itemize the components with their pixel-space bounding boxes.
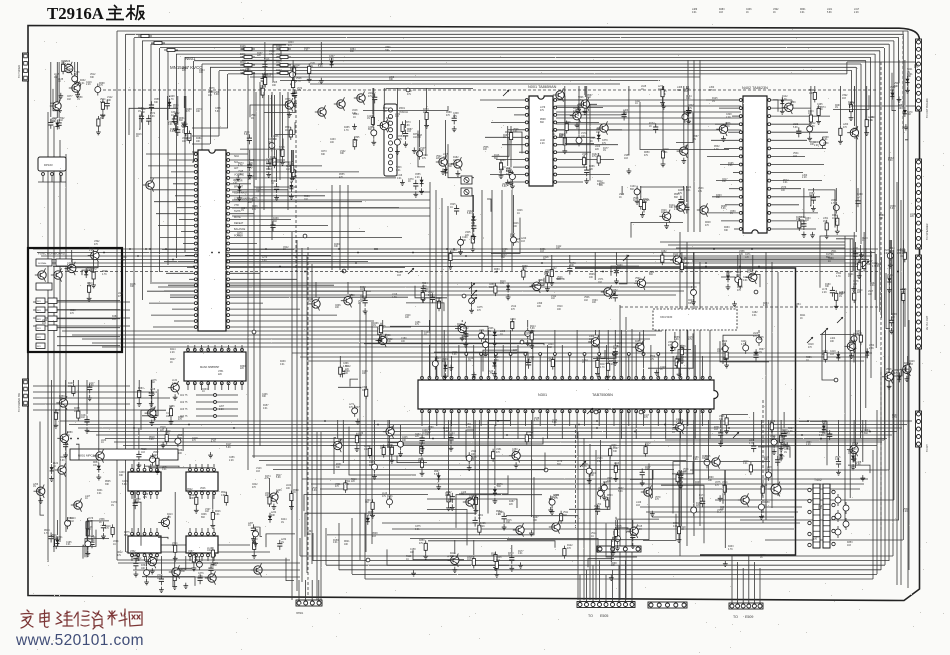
wire [189,278,194,280]
svg-text:D405: D405 [480,523,486,525]
resistor [184,123,187,136]
wire [771,131,828,133]
IC N602 M58655P [184,348,246,384]
svg-text:33K: 33K [389,79,394,81]
svg-text:1K: 1K [795,306,798,308]
ground [379,336,384,342]
ground [888,262,893,268]
wire [905,112,908,140]
svg-text:D683: D683 [138,388,144,390]
capacitor [65,517,71,529]
wire [557,129,622,131]
svg-text:1N: 1N [693,139,696,141]
wire [151,380,153,407]
svg-text:1K: 1K [619,197,622,199]
svg-text:FUNCTION BOARD: FUNCTION BOARD [38,252,66,256]
resistor [353,137,356,150]
wire [373,88,375,126]
wire [57,300,120,302]
capacitor [139,112,144,122]
wire [250,105,287,117]
wire [392,528,794,530]
svg-text:R362: R362 [463,328,469,330]
title glyph 板 [126,5,145,21]
ground [149,401,154,407]
svg-text:L316: L316 [392,294,398,296]
svg-text:D670: D670 [609,361,615,363]
capacitor [511,234,517,246]
wire [252,455,692,457]
svg-text:R251: R251 [397,272,403,274]
resistor [291,162,294,175]
wire [123,445,877,447]
svg-text:L494: L494 [67,69,73,71]
wire [846,62,848,74]
ground [289,194,294,200]
svg-text:10K: 10K [265,495,270,497]
svg-text:0.01: 0.01 [263,408,268,410]
svg-text:L623: L623 [753,333,759,335]
wire [715,123,739,125]
ground [460,335,465,341]
wire [771,164,824,166]
svg-text:V502: V502 [894,83,900,85]
resistor [437,298,440,311]
svg-text:1N: 1N [276,492,279,494]
wire [41,255,872,257]
wire [181,231,194,233]
wire [740,519,899,521]
svg-text:D431: D431 [97,490,103,492]
IC N803 [128,468,161,494]
resistor [62,61,65,74]
svg-text:L654: L654 [42,320,48,322]
svg-text:KEY: KEY [37,346,42,348]
pin header [539,353,542,356]
resistor [365,386,368,399]
resistor [138,35,152,38]
ground [236,175,241,181]
test point [462,294,466,298]
svg-text:10K: 10K [199,72,204,74]
capacitor [613,292,618,302]
transistor [746,271,757,284]
wire [225,492,227,493]
wire [557,144,618,146]
resistor [253,539,256,552]
wire [639,332,641,341]
wire [86,380,88,414]
svg-text:1U: 1U [500,163,503,165]
ground [274,195,279,201]
wire [771,172,803,174]
wire [903,369,909,379]
svg-text:N301: N301 [538,393,547,397]
diode [726,272,730,282]
capacitor [146,115,151,125]
transistor [597,121,608,134]
ground [137,462,142,468]
svg-text:Z601: Z601 [399,106,405,110]
IC N805 [128,532,161,556]
ground [352,124,357,130]
svg-text:L669: L669 [595,146,601,148]
wire [872,450,874,579]
transformer T402 [808,484,835,548]
ground [602,494,607,500]
transistor [716,123,727,136]
wire [310,83,620,85]
ground [627,168,632,174]
svg-text:4.7K: 4.7K [510,236,515,238]
svg-text:R612: R612 [117,552,123,554]
pin header [627,353,630,356]
capacitor [634,186,640,198]
wire [386,89,473,91]
wire [232,199,430,201]
resistor [292,167,295,180]
wire [687,330,689,378]
ground [661,103,666,109]
svg-text:V123: V123 [597,458,603,460]
wire [507,126,509,166]
capacitor [526,359,531,369]
svg-text:TO SPEAKER: TO SPEAKER [925,223,929,240]
svg-text:D465: D465 [344,127,350,129]
svg-text:2.2K: 2.2K [822,292,827,294]
svg-text:L613: L613 [614,463,620,465]
transistor [900,363,911,376]
svg-text:1U: 1U [691,290,694,292]
ground [640,480,645,486]
capacitor [889,317,894,327]
wire [851,71,853,106]
test point [754,290,758,294]
svg-text:1N: 1N [488,331,491,333]
svg-text:V612: V612 [90,74,96,76]
wire [564,86,566,135]
wire [852,105,916,107]
svg-text:V405: V405 [465,232,471,234]
capacitor [175,126,180,136]
svg-text:R315: R315 [643,199,649,201]
wire [174,320,194,322]
transistor [34,485,45,498]
diode [84,268,88,278]
wire [56,62,58,118]
wire [134,544,250,546]
svg-text:C525: C525 [450,204,456,206]
diode [268,513,272,523]
wire [182,428,184,451]
ground [613,359,618,365]
svg-text:R597: R597 [434,471,440,473]
wire [686,186,688,202]
wire [531,278,544,286]
ground [492,371,497,377]
svg-text:5.6K: 5.6K [819,435,824,437]
wire [201,464,203,468]
svg-text:5.6K: 5.6K [822,423,827,425]
wire [884,330,886,565]
svg-text:V392: V392 [842,95,848,97]
wire [53,530,96,547]
wire [230,302,263,304]
wire [342,420,344,463]
svg-text:V489: V489 [624,155,630,157]
resistor [644,444,647,457]
wire [728,131,739,133]
svg-text:1K: 1K [408,181,411,183]
svg-text:1N: 1N [784,452,787,454]
svg-text:1K: 1K [590,141,593,143]
wire [720,420,722,428]
wire [483,350,517,371]
wire [771,155,805,157]
wire [196,415,238,417]
svg-text:1U: 1U [271,183,274,185]
connector XP508 [729,603,763,609]
wire [892,73,896,111]
svg-text:L309: L309 [500,331,506,333]
svg-text:L463: L463 [623,110,629,112]
wire [137,557,139,561]
wire [505,132,522,153]
svg-text:4.7K: 4.7K [211,441,216,443]
wire [176,54,178,258]
ground [664,223,669,229]
capacitor [471,222,476,232]
wire [240,139,283,150]
svg-text:C457: C457 [148,554,154,556]
wire [648,333,693,368]
wire [777,272,779,496]
svg-text:R554: R554 [353,114,359,116]
ground [811,205,816,211]
svg-text:R304: R304 [809,90,815,92]
diode [903,107,907,117]
transistor [35,268,46,281]
svg-text:C643: C643 [288,42,294,44]
resistor [858,260,861,273]
wire [488,420,510,513]
svg-text:L164: L164 [286,485,292,487]
test point [594,410,598,414]
svg-text:4.7K: 4.7K [763,305,768,307]
svg-text:V166: V166 [273,136,279,138]
wire [254,159,297,187]
svg-text:2.2K: 2.2K [150,458,155,460]
svg-text:33K: 33K [607,481,612,483]
svg-text:V687: V687 [506,168,512,170]
svg-text:4.7K: 4.7K [422,286,427,288]
wire [472,195,474,233]
wire [635,411,637,439]
ground [424,122,429,128]
svg-text:V514: V514 [591,533,597,535]
wire [625,560,627,602]
wire [576,330,578,378]
capacitor [251,524,256,534]
diode [865,348,869,358]
svg-text:D528: D528 [691,287,697,289]
svg-text:D552: D552 [496,511,502,513]
wire [117,30,908,32]
IC N301 TAB7550BN [418,376,718,412]
pin [51,173,54,176]
wire [228,345,230,350]
wire [134,37,899,39]
svg-text:C618: C618 [808,344,814,346]
svg-text:L142: L142 [770,421,776,423]
wire [517,411,519,439]
wire [428,345,430,378]
wire [771,220,797,222]
capacitor [586,465,592,477]
wire [76,444,79,460]
capacitor [851,333,857,345]
wire [307,247,309,598]
capacitor [525,327,531,339]
resistor [401,121,404,134]
svg-text:C376: C376 [198,573,204,575]
svg-text:L232: L232 [281,539,287,541]
wire [320,432,322,600]
ground [446,505,451,511]
capacitor [247,161,252,171]
ground [441,169,446,175]
svg-text:0.01: 0.01 [870,285,875,287]
svg-text:1U: 1U [74,411,77,413]
transistor [55,463,66,476]
svg-text:5.6K: 5.6K [637,529,642,531]
wire [185,254,194,256]
svg-text:4.7K: 4.7K [741,344,746,346]
wire [315,282,317,297]
wire [228,73,847,75]
svg-text:2.2K: 2.2K [725,126,730,128]
wire [139,115,140,130]
connector XP504 [916,411,922,447]
option jumper [214,394,217,397]
svg-text:0.01: 0.01 [415,529,420,531]
wire [276,150,278,182]
wire [187,266,194,268]
resistor [565,121,568,134]
svg-text:1K: 1K [283,249,286,251]
svg-text:1K: 1K [169,408,172,410]
wire [803,188,805,218]
wire [742,568,744,603]
svg-text:5.6K: 5.6K [900,251,905,253]
svg-text:1U: 1U [202,391,205,393]
svg-text:D216: D216 [450,553,456,555]
wire [870,251,872,378]
wire [495,411,497,426]
wire [57,345,120,347]
svg-text:5.6K: 5.6K [226,447,231,449]
wire [247,62,249,470]
ground [458,249,463,255]
svg-text:D142: D142 [782,96,788,98]
wire [473,345,475,378]
svg-text:1N: 1N [281,542,284,544]
wire [716,180,739,182]
wire [771,107,811,109]
svg-text:V194: V194 [900,253,906,255]
wire [415,286,447,298]
resistor [281,146,284,159]
wire [480,411,482,426]
wire [196,401,238,403]
ground [456,170,461,176]
wire [234,383,236,390]
svg-text:D338: D338 [891,314,897,316]
wire [82,270,94,275]
wire [33,301,130,303]
svg-text:C232: C232 [872,263,878,265]
svg-text:SVHS: SVHS [234,210,241,213]
svg-text:1N: 1N [367,118,370,120]
wire [598,411,600,426]
wire [311,580,313,600]
svg-text:C432: C432 [551,268,557,270]
wire [230,266,405,268]
svg-text:C328: C328 [726,114,732,116]
wire [230,195,325,197]
svg-text:1N: 1N [603,150,606,152]
ground [448,264,453,270]
wire [722,415,748,444]
capacitor [49,533,54,543]
ground [377,338,382,344]
ground [470,246,475,252]
svg-text:0.01: 0.01 [162,469,167,471]
capacitor [261,75,266,85]
wire [665,439,884,441]
wire [201,557,203,561]
svg-text:R110: R110 [406,556,412,558]
wire [880,62,882,530]
svg-text:R249: R249 [577,105,583,107]
ground [904,124,909,130]
resistor [292,78,295,91]
diode [167,99,171,109]
capacitor [835,526,841,538]
svg-text:V333: V333 [698,188,704,190]
svg-text:1K: 1K [820,109,823,111]
ground [449,445,454,451]
capacitor [758,501,764,513]
diode [443,362,447,372]
wire [196,394,238,396]
svg-text:10K: 10K [425,434,430,436]
svg-text:33K: 33K [867,264,872,266]
svg-text:L645: L645 [641,86,647,88]
wire [173,183,194,185]
wire [853,232,855,290]
wire [611,266,639,276]
wire [268,95,270,158]
svg-text:33K: 33K [362,390,367,392]
wire [443,411,445,439]
wire [715,499,894,501]
wire [510,411,512,426]
svg-text:R508: R508 [540,119,546,121]
capacitor [704,456,710,468]
svg-text:TO POWER SW: TO POWER SW [17,392,21,412]
wire [33,309,130,311]
